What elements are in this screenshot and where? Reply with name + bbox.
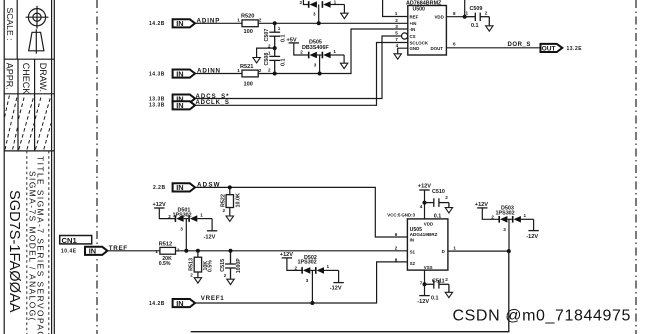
wire R521 to corner xyxy=(258,29,408,74)
svg-text:1: 1 xyxy=(268,51,271,56)
capacitor C509 xyxy=(465,13,490,26)
node ADINN/D505 junction xyxy=(318,72,322,76)
svg-text:2: 2 xyxy=(295,265,298,270)
svg-text:CN1: CN1 xyxy=(62,236,78,245)
svg-text:VDD: VDD xyxy=(435,14,444,19)
svg-text:3: 3 xyxy=(306,278,309,283)
port IN TREF xyxy=(85,247,107,255)
pin 8 VDD wire xyxy=(446,16,464,18)
wire D output down and left xyxy=(191,251,509,332)
node VDD/C510 junction xyxy=(423,201,427,205)
port IN ADCS xyxy=(173,95,195,103)
pin 6 DOUT wire xyxy=(446,47,540,49)
svg-text:D: D xyxy=(442,249,445,254)
hatch diagonals xyxy=(5,96,52,150)
svg-text:DB3S406F: DB3S406F xyxy=(302,45,329,51)
svg-text:4: 4 xyxy=(420,204,423,209)
svg-text:DOR_S: DOR_S xyxy=(508,42,531,48)
svg-text:R513: R513 xyxy=(188,258,194,271)
svg-text:GND: GND xyxy=(410,46,420,51)
svg-text:IN: IN xyxy=(176,101,183,110)
node C507/C508/gnd junction xyxy=(273,46,277,50)
svg-text:2: 2 xyxy=(491,214,494,219)
svg-text:5: 5 xyxy=(395,31,398,36)
svg-text:1: 1 xyxy=(155,249,158,254)
port IN ADINN xyxy=(173,70,195,78)
svg-text:100: 100 xyxy=(244,81,253,87)
svg-text:U500: U500 xyxy=(413,6,426,12)
svg-text:1: 1 xyxy=(395,11,398,16)
svg-text:CS: CS xyxy=(410,34,416,39)
svg-text:8: 8 xyxy=(453,11,456,16)
svg-text:+12V: +12V xyxy=(153,202,166,208)
svg-text:+IN: +IN xyxy=(410,21,417,26)
svg-text:APPR.: APPR. xyxy=(5,63,15,90)
svg-text:VDD: VDD xyxy=(424,221,433,226)
svg-text:IN: IN xyxy=(410,238,414,243)
power -12V (U505) xyxy=(424,284,426,295)
diode D504 dual clamp (cut at top) xyxy=(303,0,344,23)
wire R512 to U505 S1 xyxy=(176,250,408,252)
wire ADCS_S* to CS xyxy=(195,36,402,99)
svg-text:R512: R512 xyxy=(159,242,172,248)
svg-text:0.1: 0.1 xyxy=(431,296,439,302)
svg-text:CSDN @m0_71844975: CSDN @m0_71844975 xyxy=(453,307,632,324)
wire TREF to R512 xyxy=(107,250,159,252)
svg-text:C510: C510 xyxy=(432,189,445,195)
ground C509 xyxy=(486,26,493,31)
pin 7 VSS wire xyxy=(424,270,426,284)
svg-text:2: 2 xyxy=(177,247,180,252)
svg-text:2: 2 xyxy=(168,214,171,219)
node D501/TREF junction xyxy=(184,249,188,253)
power -12V (D503) xyxy=(528,230,538,232)
svg-text:R520: R520 xyxy=(241,14,254,20)
svg-text:2.2B: 2.2B xyxy=(153,185,166,191)
svg-text:7: 7 xyxy=(395,37,398,42)
node ADINN/C508 junction xyxy=(273,72,277,76)
ground C510 xyxy=(445,208,452,213)
svg-text:-IN: -IN xyxy=(410,27,416,32)
node R513/TREF junction xyxy=(196,249,200,253)
svg-text:VSS: VSS xyxy=(424,265,433,270)
pin 4 GND wire xyxy=(398,48,408,54)
svg-text:100: 100 xyxy=(244,29,253,35)
ground D504 xyxy=(341,13,348,18)
capacitor C515 xyxy=(225,251,236,279)
svg-text:REF: REF xyxy=(410,14,419,19)
svg-text:13.2E: 13.2E xyxy=(567,46,583,52)
svg-text:1: 1 xyxy=(200,213,203,218)
svg-text:+12V: +12V xyxy=(280,252,293,258)
pin 5 CS bubble xyxy=(402,33,408,39)
wire ADSW to U505 IN xyxy=(195,187,407,237)
svg-text:S2: S2 xyxy=(410,261,416,266)
svg-text:2: 2 xyxy=(190,273,193,278)
svg-text:-12V: -12V xyxy=(417,299,429,305)
svg-text:2: 2 xyxy=(445,277,448,282)
ground C511 xyxy=(445,292,452,297)
ground U500 xyxy=(394,54,401,59)
svg-text:C515: C515 xyxy=(220,259,226,272)
svg-text:1PS302: 1PS302 xyxy=(496,210,515,216)
svg-text:SGD7S-1FAØØAA: SGD7S-1FAØØAA xyxy=(6,190,22,313)
svg-text:-12V: -12V xyxy=(526,234,538,240)
svg-text:3: 3 xyxy=(503,227,506,232)
node ADSW/R522 junction xyxy=(228,185,232,189)
svg-text:IN: IN xyxy=(176,183,183,192)
svg-text:0.1: 0.1 xyxy=(471,23,479,29)
resistor R513 xyxy=(197,251,199,257)
svg-text:2: 2 xyxy=(259,18,262,23)
node VDD junction xyxy=(463,15,467,19)
port IN VREF1 xyxy=(173,299,195,307)
svg-text:1: 1 xyxy=(453,245,456,250)
node ADINP/D504 junction xyxy=(317,21,321,25)
svg-text:SCALE :: SCALE : xyxy=(5,8,15,41)
svg-text:2: 2 xyxy=(395,18,398,23)
svg-text:C511: C511 xyxy=(432,278,445,284)
pin 1 D wire xyxy=(448,250,509,252)
title block frame xyxy=(4,0,54,334)
wire ADCLK_S to SCLOCK xyxy=(195,43,408,106)
power +12V (U505) xyxy=(424,190,426,203)
svg-text:2: 2 xyxy=(445,195,448,200)
svg-text:1PS302: 1PS302 xyxy=(173,212,192,218)
svg-text:2: 2 xyxy=(300,49,303,54)
port IN ADCLK xyxy=(173,101,195,109)
ground R513 xyxy=(194,278,201,283)
svg-text:2: 2 xyxy=(300,0,303,5)
ground C515 xyxy=(227,279,234,284)
svg-text:2: 2 xyxy=(395,246,398,251)
svg-text:1: 1 xyxy=(334,0,337,5)
svg-text:IN: IN xyxy=(89,247,96,256)
svg-text:13.3B: 13.3B xyxy=(149,102,165,108)
svg-text:0.1: 0.1 xyxy=(434,213,442,219)
svg-text:C509: C509 xyxy=(470,6,483,12)
svg-text:+12V: +12V xyxy=(475,202,488,208)
svg-text:IN: IN xyxy=(176,299,183,308)
diode D503 1PS302 dual clamp xyxy=(498,216,521,223)
svg-text:0.1: 0.1 xyxy=(280,35,286,43)
pin 1 REF wire xyxy=(383,0,408,17)
svg-text:1000P: 1000P xyxy=(236,258,242,274)
resistor R521 xyxy=(242,70,258,77)
capacitor C510 xyxy=(425,198,449,207)
title area dashed dividers xyxy=(27,151,49,334)
svg-text:0.5%: 0.5% xyxy=(159,261,171,267)
svg-text:8: 8 xyxy=(395,257,398,262)
node ADINP/C507 junction xyxy=(273,21,277,25)
svg-text:3: 3 xyxy=(313,12,316,17)
svg-text:S1: S1 xyxy=(410,249,416,254)
svg-text:6: 6 xyxy=(453,41,456,46)
svg-text:VCC:5 GND:3: VCC:5 GND:3 xyxy=(387,213,415,218)
diode D501 1PS302 dual clamp xyxy=(175,215,198,222)
ground D505 xyxy=(340,63,347,68)
capacitor C507 xyxy=(269,23,280,48)
resistor R512 xyxy=(160,247,176,254)
svg-text:1PS302: 1PS302 xyxy=(298,260,317,266)
op-amp U500 AD7684BRMZ box xyxy=(408,6,447,56)
svg-text:R521: R521 xyxy=(240,64,253,70)
wire ADINP to R520 xyxy=(195,22,242,24)
node VSS/C511 junction xyxy=(423,282,427,286)
svg-text:0.1: 0.1 xyxy=(280,59,286,67)
svg-text:2: 2 xyxy=(268,68,271,73)
resistor R520 xyxy=(242,20,258,27)
svg-text:VREF1: VREF1 xyxy=(201,295,225,302)
diode D505 DB3S406F dual clamp xyxy=(308,52,331,59)
svg-text:R522: R522 xyxy=(220,194,226,207)
svg-text:1: 1 xyxy=(327,264,330,269)
svg-text:SIGMA-7S MODEL / ANALOG(: SIGMA-7S MODEL / ANALOG( xyxy=(28,171,38,322)
third-angle projection symbol xyxy=(26,6,49,54)
svg-text:1: 1 xyxy=(524,213,527,218)
svg-text:0.5%: 0.5% xyxy=(208,260,214,272)
op-amp U505 ADG419BRZ box xyxy=(407,219,448,270)
node D output junction xyxy=(507,249,511,253)
svg-text:1: 1 xyxy=(278,26,281,31)
svg-text:1: 1 xyxy=(466,11,469,16)
svg-text:14.2B: 14.2B xyxy=(149,21,165,27)
svg-text:DOUT: DOUT xyxy=(431,46,444,51)
svg-text:4: 4 xyxy=(396,43,399,48)
svg-text:3: 3 xyxy=(180,226,183,231)
capacitor C508 xyxy=(269,48,280,73)
svg-text:2: 2 xyxy=(259,68,262,73)
svg-text:1: 1 xyxy=(237,18,240,23)
node C515/TREF junction xyxy=(229,249,233,253)
svg-text:2: 2 xyxy=(224,273,227,278)
node VREF1/D502 junction xyxy=(310,301,314,305)
svg-text:3: 3 xyxy=(395,24,398,29)
resistor R522 xyxy=(229,187,231,194)
svg-text:CHECK: CHECK xyxy=(21,63,31,95)
svg-text:2: 2 xyxy=(223,208,226,213)
svg-text:10.4E: 10.4E xyxy=(61,248,77,254)
wire VREF1 to riser xyxy=(195,262,407,303)
port IN ADSW xyxy=(173,183,195,191)
wire to mid ground xyxy=(257,48,275,57)
page boundary dash-dot left xyxy=(96,0,98,334)
svg-text:OUT: OUT xyxy=(542,45,556,52)
pin 4 VDD wire xyxy=(424,203,426,219)
ground mid node xyxy=(253,58,260,63)
svg-text:-12V: -12V xyxy=(204,234,216,240)
svg-text:IN: IN xyxy=(176,69,183,78)
connector CN1 xyxy=(60,236,92,244)
svg-text:DRAW.: DRAW. xyxy=(38,63,48,92)
svg-text:7: 7 xyxy=(420,281,423,286)
svg-text:-12V: -12V xyxy=(330,286,342,292)
capacitor C511 xyxy=(425,280,449,292)
svg-text:3: 3 xyxy=(314,62,317,67)
svg-text:IN: IN xyxy=(176,19,183,28)
page boundary dash-dot right xyxy=(635,0,637,334)
svg-text:2: 2 xyxy=(485,11,488,16)
svg-text:SCLOCK: SCLOCK xyxy=(410,40,429,45)
ground R522 xyxy=(226,216,233,221)
port OUT DOR_S xyxy=(541,44,563,52)
svg-text:1: 1 xyxy=(333,49,336,54)
svg-text:10.0K: 10.0K xyxy=(235,193,241,207)
power -12V (D501) xyxy=(207,230,217,232)
svg-text:C507: C507 xyxy=(264,29,270,42)
wire ADINN to R521 xyxy=(195,73,242,75)
svg-text:14.3B: 14.3B xyxy=(149,72,165,78)
svg-text:6: 6 xyxy=(395,232,398,237)
diode D502 1PS302 dual clamp xyxy=(301,267,324,274)
svg-text:+12V: +12V xyxy=(418,184,431,190)
svg-text:ADG419BRZ: ADG419BRZ xyxy=(410,232,438,237)
svg-text:14.2B: 14.2B xyxy=(149,301,165,307)
wire R520 to U500 +IN xyxy=(258,22,408,24)
power -12V (D502) xyxy=(333,282,343,284)
port IN ADINP xyxy=(173,19,195,27)
svg-text:1: 1 xyxy=(237,68,240,73)
